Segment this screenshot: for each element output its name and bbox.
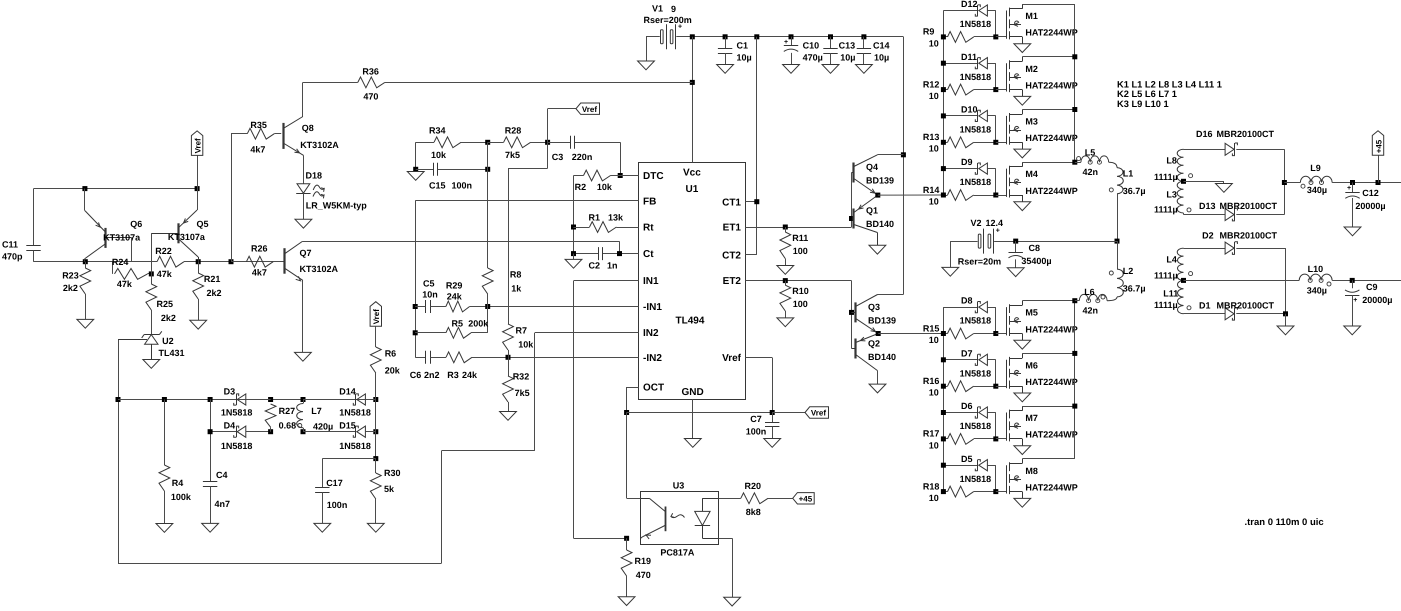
svg-text:10: 10 [929, 493, 939, 503]
wire [626, 413, 628, 499]
svg-text:Q5: Q5 [197, 219, 209, 229]
wire [85, 262, 87, 268]
wire [1352, 198, 1354, 227]
junction [941, 87, 946, 92]
wire [547, 109, 549, 143]
wire [943, 142, 947, 144]
svg-text:K2 L5 L6 L7 1: K2 L5 L6 L7 1 [1117, 89, 1177, 99]
resistor R29 24k [446, 281, 488, 312]
junction [941, 113, 946, 118]
wire drain bus [1074, 4, 1076, 162]
inductor L8 1111u [1154, 149, 1193, 182]
svg-text:D14: D14 [339, 386, 356, 396]
svg-text:8k8: 8k8 [746, 507, 761, 517]
svg-text:1n: 1n [607, 261, 618, 271]
svg-text:Rser=200m: Rser=200m [644, 15, 692, 25]
svg-text:-IN1: -IN1 [643, 302, 662, 313]
wire [974, 386, 996, 388]
svg-text:1N5818: 1N5818 [960, 421, 992, 431]
svg-text:R17: R17 [923, 429, 940, 439]
wire [995, 360, 997, 386]
svg-text:R8: R8 [510, 270, 522, 280]
svg-text:V1: V1 [652, 4, 663, 14]
svg-text:1N5818: 1N5818 [960, 368, 992, 378]
resistor R26 4k7 [231, 244, 284, 278]
wire [1236, 313, 1285, 315]
junction [1072, 160, 1077, 165]
svg-text:FB: FB [643, 196, 656, 207]
svg-text:R27: R27 [279, 406, 296, 416]
junction [1072, 404, 1077, 409]
svg-text:R3: R3 [447, 370, 459, 380]
resistor R16 10 [923, 376, 996, 398]
svg-text:C5: C5 [423, 279, 435, 289]
svg-text:L3: L3 [1166, 190, 1177, 200]
wire [1352, 183, 1354, 193]
wire [995, 307, 997, 333]
svg-text:42n: 42n [1083, 167, 1099, 177]
resistor R27 0.68 [265, 404, 296, 432]
svg-text:M3: M3 [1025, 117, 1038, 127]
junction [941, 489, 946, 494]
wire [995, 116, 997, 142]
svg-text:2n2: 2n2 [424, 370, 440, 380]
resistor R17 10 [923, 429, 996, 451]
junction [993, 331, 998, 336]
svg-text:C6: C6 [410, 370, 422, 380]
svg-text:D4: D4 [224, 421, 236, 431]
svg-text:R10: R10 [792, 286, 809, 296]
wire [785, 280, 851, 282]
junction [875, 193, 880, 198]
svg-text:Rt: Rt [643, 222, 654, 233]
wire [863, 53, 865, 64]
wire [745, 201, 756, 203]
svg-text:340µ: 340µ [1307, 285, 1327, 295]
junction [754, 34, 759, 39]
svg-text:100k: 100k [171, 492, 192, 502]
wire [548, 108, 576, 110]
net flag Vref above R6 [370, 302, 381, 327]
svg-text:CT2: CT2 [722, 250, 741, 261]
wire [415, 142, 417, 169]
wire [791, 53, 793, 65]
svg-text:HAT2244WP: HAT2244WP [1025, 324, 1077, 334]
svg-text:10µ: 10µ [840, 53, 855, 63]
junction [770, 410, 775, 415]
junction [116, 397, 121, 402]
inductor L4 1111u [1154, 248, 1193, 281]
svg-text:IN1: IN1 [643, 276, 659, 287]
wire [988, 465, 996, 467]
svg-text:D10: D10 [961, 105, 978, 115]
ground [684, 439, 701, 448]
svg-text:10k: 10k [518, 340, 534, 350]
wire [626, 387, 628, 413]
wire center tap [1184, 181, 1224, 183]
diode D3 1N5818 [221, 386, 271, 417]
wire [877, 371, 879, 385]
junction [162, 397, 167, 402]
svg-text:R35: R35 [250, 120, 267, 130]
net flag +45 [1372, 131, 1383, 183]
diode D14 1N5818 [303, 386, 376, 417]
inductor L7 420u [297, 400, 334, 432]
svg-text:R34: R34 [429, 126, 446, 136]
svg-text:100n: 100n [327, 500, 348, 510]
svg-text:L1: L1 [1123, 169, 1134, 179]
svg-text:D8: D8 [961, 296, 973, 306]
wire [768, 498, 793, 500]
resistor R20 8k8 [741, 481, 768, 517]
svg-text:R25: R25 [157, 299, 174, 309]
resistor R28 7k5 [488, 126, 548, 161]
wire IN2 feedback [534, 333, 536, 451]
wire U1 GND [692, 399, 694, 438]
svg-text:2k2: 2k2 [161, 313, 176, 323]
wire Q5 base [151, 233, 153, 274]
svg-text:R30: R30 [384, 468, 401, 478]
wire [950, 241, 952, 267]
svg-text:10: 10 [929, 440, 939, 450]
junction [941, 34, 946, 39]
wire [725, 37, 727, 49]
capacitor C8 35400u [1007, 241, 1051, 277]
svg-text:R1: R1 [589, 213, 601, 223]
svg-text:Q6: Q6 [130, 219, 142, 229]
svg-text:MBR20100CT: MBR20100CT [1217, 129, 1275, 139]
svg-text:D18: D18 [306, 171, 323, 181]
wire [1285, 314, 1287, 326]
wire -IN1 row [488, 306, 639, 308]
wire [1284, 149, 1286, 214]
resistor R11 [777, 227, 808, 274]
wire -IN2 row [508, 357, 639, 359]
wire [988, 63, 996, 65]
svg-text:+: + [1347, 185, 1351, 192]
svg-text:1N5818: 1N5818 [960, 474, 992, 484]
svg-text:M5: M5 [1025, 308, 1038, 318]
wire [974, 438, 996, 440]
wire [1184, 248, 1226, 250]
wire [148, 273, 152, 275]
wire [988, 412, 996, 414]
capacitor C9 20000u [1344, 280, 1393, 334]
svg-text:470: 470 [363, 92, 378, 102]
svg-text:R23: R23 [62, 271, 79, 281]
svg-text:C7: C7 [750, 414, 762, 424]
wire [830, 37, 832, 49]
svg-text:Vref: Vref [722, 353, 742, 364]
wire [573, 176, 575, 254]
svg-text:1k: 1k [511, 284, 522, 294]
svg-text:Q4: Q4 [866, 162, 878, 172]
svg-text:R21: R21 [204, 274, 221, 284]
svg-text:1N5818: 1N5818 [339, 441, 371, 451]
junction [941, 410, 946, 415]
junction [993, 34, 998, 39]
diode D18 LED LR_W5KM-typ [295, 155, 367, 228]
resistor R10 [777, 281, 809, 327]
junction [993, 489, 998, 494]
svg-text:HAT2244WP: HAT2244WP [1025, 80, 1077, 90]
svg-text:100n: 100n [746, 427, 767, 437]
wire [995, 169, 997, 195]
svg-text:BD139: BD139 [866, 176, 894, 186]
wire [878, 333, 943, 335]
junction [618, 173, 623, 178]
svg-text:Vref: Vref [194, 138, 203, 153]
wire [1352, 295, 1354, 326]
wire [988, 359, 996, 361]
ground [295, 352, 312, 361]
junction [413, 167, 418, 172]
wire [974, 142, 996, 144]
svg-text:42n: 42n [1083, 306, 1099, 316]
svg-text:V2: V2 [971, 218, 982, 228]
diode D15 1N5818 [303, 421, 376, 451]
svg-text:C1: C1 [737, 41, 749, 51]
wire [943, 465, 977, 467]
wire [974, 36, 996, 38]
svg-text:470µ: 470µ [803, 53, 823, 63]
wire OCT [627, 387, 639, 389]
svg-text:U3: U3 [673, 481, 685, 491]
svg-text:C8: C8 [1029, 243, 1041, 253]
svg-text:470p: 470p [2, 252, 23, 262]
net flag Vref at C3 [548, 103, 600, 142]
svg-text:R2: R2 [575, 182, 587, 192]
junction [849, 216, 854, 221]
svg-text:C11: C11 [2, 240, 18, 250]
wire [943, 36, 947, 38]
junction [268, 397, 273, 402]
wire [988, 115, 996, 117]
junction [1072, 54, 1077, 59]
transistor M5 [996, 301, 1078, 350]
wire [772, 412, 805, 414]
wire [1075, 162, 1081, 164]
transistor Q3 BD139 [852, 295, 897, 334]
junction [1181, 278, 1186, 283]
svg-text:7k5: 7k5 [505, 150, 520, 160]
junction [828, 34, 833, 39]
wire [619, 241, 621, 253]
svg-text:OCT: OCT [643, 383, 664, 394]
wire [950, 241, 977, 243]
svg-text:MBR20100CT: MBR20100CT [1217, 300, 1275, 310]
transistor Q5 KT3107a [151, 189, 208, 262]
wire [1285, 248, 1287, 314]
junction [1350, 278, 1355, 283]
wire bottom bus [118, 563, 442, 565]
svg-text:KT3102A: KT3102A [300, 264, 339, 274]
svg-text:D6: D6 [961, 401, 973, 411]
resistor R9 10 [923, 27, 996, 49]
transistor M4 [996, 162, 1078, 210]
wire [365, 399, 375, 401]
wire [303, 399, 356, 401]
resistor R1 13k [574, 213, 639, 233]
net flag +45 at R20 [768, 493, 814, 504]
wire [33, 251, 35, 262]
svg-text:1N5818: 1N5818 [339, 408, 371, 418]
wire [756, 37, 758, 255]
wire [184, 261, 285, 263]
junction [993, 436, 998, 441]
svg-text:D11: D11 [961, 52, 977, 62]
transistor M6 [996, 353, 1078, 401]
transistor M1 [996, 4, 1078, 52]
ground [1216, 184, 1233, 193]
svg-text:20000µ: 20000µ [1355, 201, 1385, 211]
svg-text:C3: C3 [552, 152, 564, 162]
svg-text:L9: L9 [1310, 163, 1321, 173]
wire [1236, 149, 1284, 151]
svg-text:HAT2244WP: HAT2244WP [1025, 377, 1077, 387]
resistor R7 10k [503, 168, 535, 357]
svg-text:LR_W5KM-typ: LR_W5KM-typ [306, 201, 367, 211]
wire [988, 168, 996, 170]
svg-text:10k: 10k [597, 182, 613, 192]
svg-text:+: + [1353, 297, 1357, 304]
junction [196, 259, 201, 264]
svg-text:C17: C17 [326, 478, 343, 488]
voltage source V2 [958, 218, 1003, 267]
text K coupling directives [1117, 80, 1222, 109]
svg-text:Q7: Q7 [300, 248, 312, 258]
wire [365, 431, 375, 433]
svg-text:1111µ: 1111µ [1154, 205, 1178, 215]
svg-text:2k2: 2k2 [63, 283, 78, 293]
junction [82, 186, 87, 191]
junction [754, 199, 759, 204]
wire output sense bus [118, 399, 376, 401]
wire [198, 299, 200, 320]
junction [849, 310, 854, 315]
resistor R6 20k [370, 326, 400, 399]
svg-text:L4: L4 [1166, 254, 1177, 264]
junction [301, 429, 306, 434]
inductor L1 36.7u [1109, 162, 1146, 196]
wire [1236, 248, 1285, 250]
wire [830, 53, 832, 64]
svg-text:10: 10 [929, 388, 939, 398]
inductor L6 42n [1079, 287, 1117, 316]
resistor R5 200k [415, 307, 489, 339]
junction [571, 225, 576, 230]
junction [413, 304, 418, 309]
wire [732, 538, 734, 597]
svg-text:D12: D12 [961, 0, 978, 9]
wire [442, 450, 535, 452]
optocoupler U3 PC817A [627, 481, 719, 558]
wire [877, 154, 903, 156]
wire [246, 399, 271, 401]
svg-text:D7: D7 [961, 348, 973, 358]
transistor M3 [996, 110, 1078, 158]
transistor Q8 KT3102A [283, 117, 339, 156]
svg-text:100n: 100n [452, 181, 473, 191]
svg-text:R9: R9 [923, 27, 935, 37]
svg-text:1N5818: 1N5818 [960, 19, 992, 29]
svg-text:HAT2244WP: HAT2244WP [1025, 430, 1077, 440]
ground [565, 254, 582, 269]
svg-text:420µ: 420µ [313, 422, 333, 432]
wire [943, 195, 947, 197]
svg-text:R15: R15 [923, 323, 940, 333]
wire IN2 row [535, 332, 639, 334]
svg-text:PC817A: PC817A [660, 548, 695, 558]
junction [993, 87, 998, 92]
junction [941, 463, 946, 468]
svg-text:D9: D9 [961, 157, 973, 167]
svg-text:4k7: 4k7 [250, 145, 265, 155]
junction [485, 167, 490, 172]
junction [993, 140, 998, 145]
svg-text:KT3107a: KT3107a [103, 233, 141, 243]
svg-text:HAT2244WP: HAT2244WP [1025, 482, 1077, 492]
svg-text:0.68: 0.68 [279, 421, 297, 431]
svg-text:.tran 0 110m 0 uic: .tran 0 110m 0 uic [1245, 517, 1324, 528]
wire drain bus [1074, 301, 1076, 459]
svg-text:36.7µ: 36.7µ [1123, 283, 1146, 293]
junction [861, 34, 866, 39]
svg-text:R29: R29 [446, 281, 463, 291]
svg-text:TL431: TL431 [159, 348, 185, 358]
svg-text:ET2: ET2 [723, 276, 742, 287]
resistor R19 470 [618, 538, 651, 605]
wire [785, 259, 787, 266]
svg-text:DTC: DTC [643, 171, 664, 182]
svg-text:Vref: Vref [372, 309, 381, 324]
wire [943, 307, 977, 309]
svg-text:R20: R20 [745, 481, 762, 491]
svg-text:R16: R16 [923, 376, 940, 386]
inductor L11 1111u [1154, 280, 1191, 313]
junction [690, 34, 695, 39]
resistor R25 2k2 [146, 274, 176, 335]
svg-text:C2: C2 [589, 261, 601, 271]
resistor R22 47k [155, 246, 184, 279]
wire Q7 collector to Ct [302, 241, 619, 243]
svg-text:C12: C12 [1362, 188, 1379, 198]
ground [1277, 326, 1294, 335]
wire [772, 358, 774, 413]
svg-text:35400µ: 35400µ [1021, 256, 1051, 266]
svg-text:100: 100 [793, 299, 808, 309]
svg-text:Rser=20m: Rser=20m [958, 257, 1001, 267]
wire [692, 36, 903, 38]
resistor R35 4k7 [231, 120, 281, 155]
svg-text:200k: 200k [468, 319, 489, 329]
diode D5 1N5818 [943, 454, 995, 492]
svg-text:ET1: ET1 [723, 223, 742, 234]
junction [373, 456, 378, 461]
wire [620, 142, 622, 175]
junction [624, 410, 629, 415]
transistor Q6 KT3107a [85, 189, 143, 262]
svg-text:C15: C15 [429, 181, 446, 191]
svg-text:BD140: BD140 [866, 219, 894, 229]
wire [995, 413, 997, 439]
resistor R34 10k [416, 126, 488, 161]
transistor Q7 KT3102A [284, 241, 339, 280]
diode D8 1N5818 [943, 296, 995, 334]
svg-text:D13: D13 [1199, 201, 1216, 211]
junction [624, 536, 629, 541]
resistor R23 2k2 [62, 262, 93, 329]
